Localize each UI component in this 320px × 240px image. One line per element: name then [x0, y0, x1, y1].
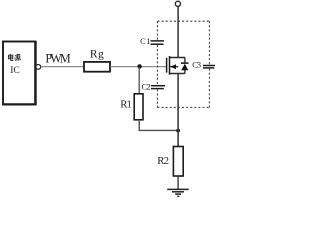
- Q1 substrate lead with arrow: [170, 66, 178, 68]
- dashed box: left edge lower (C2 to bottom): [156, 89, 158, 107]
- capacitor C3 plates: [203, 65, 215, 67]
- capacitor C1 plates: [151, 40, 165, 42]
- wire: Rg to gate: [110, 66, 166, 68]
- Q1 drain lead: [169, 57, 185, 59]
- Q1 body diode stubs: [184, 58, 186, 64]
- dashed parasitic box: top edge: [158, 20, 210, 22]
- transistor Q1 channel bar: [169, 56, 171, 75]
- svg-text:PWM: PWM: [45, 52, 70, 66]
- svg-text:C2: C2: [142, 82, 151, 91]
- label 电源 (drawn glyph strokes): [8, 54, 20, 61]
- svg-text:C1: C1: [140, 37, 150, 46]
- power source IC box U1: [3, 42, 35, 105]
- svg-text:IC: IC: [10, 65, 20, 76]
- top drain terminal circle: [175, 1, 180, 6]
- transistor Q1 MOSFET gate bar: [166, 58, 168, 73]
- ground symbol: [167, 188, 189, 190]
- resistor R2: [173, 147, 183, 177]
- svg-text:C3: C3: [192, 61, 201, 70]
- Q1 body diode triangle: [181, 64, 188, 71]
- node: gate junction dot: [137, 64, 141, 68]
- IC output pin circle: [36, 65, 41, 70]
- svg-text:Rg: Rg: [90, 48, 104, 60]
- wire: junction down to R1: [138, 67, 140, 94]
- svg-text:R2: R2: [157, 155, 169, 167]
- Q1 body diode cathode bar: [181, 62, 189, 64]
- Q1 source lead: [169, 73, 185, 75]
- dashed box: left edge middle (C1 to C2): [156, 45, 158, 85]
- resistor R1: [134, 94, 143, 120]
- dashed box: right edge upper (to C3): [208, 21, 210, 64]
- resistor Rg: [84, 62, 110, 72]
- wire: R1 bottom L to source node: [139, 120, 178, 131]
- svg-text:R1: R1: [120, 99, 132, 111]
- wire: pin to Rg: [41, 66, 84, 68]
- dashed box: right edge lower (C3 to bottom): [208, 69, 210, 108]
- node: source junction dot: [176, 129, 180, 133]
- dashed box: bottom edge: [157, 106, 209, 108]
- wire: drain vertical: [177, 6, 179, 58]
- wire: R2 to ground: [177, 176, 179, 189]
- capacitor C2 plates: [151, 85, 165, 87]
- dashed box: left edge upper (to C1): [156, 21, 158, 40]
- wire: source vertical: [177, 74, 179, 147]
